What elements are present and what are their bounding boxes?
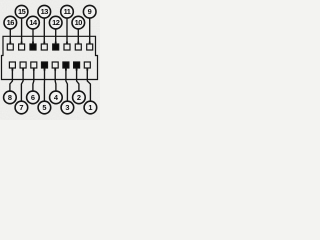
terminal 10 — [75, 44, 81, 50]
wire pin 15 — [21, 18, 23, 44]
wire pin 3 — [66, 68, 68, 101]
terminal 7 — [20, 62, 26, 68]
wire pin 8 — [10, 68, 13, 91]
wire pin 2 — [77, 68, 79, 91]
wire pin 11 — [66, 18, 68, 44]
stub terminal 9 — [89, 42, 91, 45]
terminal 5 (filled) — [42, 62, 48, 68]
stub terminal 15 — [21, 42, 23, 45]
pin circle 14 — [27, 16, 40, 29]
terminal 16 — [7, 44, 13, 50]
stub terminal 5 — [44, 68, 46, 71]
wire pin 7 — [21, 68, 23, 101]
terminal 15 — [19, 44, 25, 50]
terminal 1 — [84, 62, 90, 68]
stub terminal 7 — [22, 68, 24, 71]
stub terminal 12 — [55, 42, 57, 45]
stub terminal 8 — [11, 68, 13, 71]
pin circle 16 — [4, 16, 17, 29]
terminal 13 — [41, 44, 47, 50]
pin circle 1 — [84, 101, 97, 114]
stub terminal 6 — [33, 68, 35, 71]
terminal 2 (filled) — [74, 62, 80, 68]
pin circle 9 — [83, 5, 96, 18]
pin circle 7 — [15, 101, 28, 114]
wire pin 9 — [89, 18, 91, 44]
terminal 4 — [52, 62, 58, 68]
stub terminal 10 — [77, 42, 79, 45]
pin circle 11 — [61, 5, 74, 18]
pin circle 15 — [15, 5, 28, 18]
pin circle 12 — [49, 16, 62, 29]
wire pin 13 — [43, 18, 45, 44]
terminal 9 — [87, 44, 93, 50]
pin circle 3 — [61, 101, 74, 114]
terminal 6 — [31, 62, 37, 68]
stub terminal 14 — [32, 42, 34, 45]
pin circle 4 — [50, 91, 63, 104]
wire pin 12 — [55, 29, 57, 44]
pin circle 2 — [73, 91, 86, 104]
pin circle 6 — [27, 91, 40, 104]
pin circle 5 — [38, 101, 51, 114]
terminal 8 — [9, 62, 15, 68]
stub terminal 13 — [43, 42, 45, 45]
pin circle 8 — [4, 91, 17, 104]
wire pin 14 — [32, 29, 34, 44]
wire pin 10 — [77, 29, 79, 44]
stub terminal 1 — [86, 68, 88, 71]
connector outline — [2, 36, 98, 79]
pin circle 13 — [38, 5, 51, 18]
paper grain — [0, 0, 100, 120]
pin circle 10 — [72, 16, 85, 29]
terminal 12 (filled) — [53, 44, 59, 50]
wire pin 5 — [43, 68, 45, 101]
terminal 3 (filled) — [63, 62, 69, 68]
wire pin 4 — [54, 68, 57, 91]
terminal 11 — [64, 44, 70, 50]
stub terminal 3 — [65, 68, 67, 71]
stub terminal 16 — [9, 42, 11, 45]
stub terminal 4 — [54, 68, 56, 71]
wire pin 1 — [87, 68, 90, 101]
stub terminal 2 — [76, 68, 78, 71]
terminal 14 (filled) — [30, 44, 36, 50]
wire pin 16 — [9, 29, 11, 44]
stub terminal 11 — [66, 42, 68, 45]
wire pin 6 — [32, 68, 35, 91]
